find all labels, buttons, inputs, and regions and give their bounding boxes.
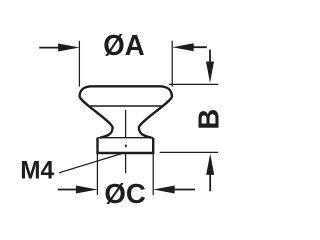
extension line right (diameter C) xyxy=(152,154,154,196)
svg-text:M4: M4 xyxy=(20,156,54,184)
svg-text:ØA: ØA xyxy=(103,30,144,62)
extension line right (diameter A) xyxy=(171,41,173,87)
arrow C left tail xyxy=(58,189,78,191)
arrowhead A right xyxy=(172,43,194,51)
arrow A left tail xyxy=(39,47,62,49)
arrowhead A left xyxy=(58,44,80,52)
head bottom line xyxy=(90,105,162,107)
arrowhead B up xyxy=(206,153,214,175)
B top extension line xyxy=(169,83,218,85)
arrowhead C right xyxy=(153,186,175,194)
knob neck left outline xyxy=(80,97,113,138)
B bottom extension line xyxy=(160,151,218,153)
centerline upper segment xyxy=(125,110,127,137)
extension line left (diameter A) xyxy=(78,41,80,87)
knob head outline xyxy=(80,86,172,96)
B down arrow tail xyxy=(209,50,211,64)
M4 leader line xyxy=(59,153,125,173)
base top line xyxy=(98,137,154,139)
knob base rectangle xyxy=(98,138,154,153)
arrow C right tail xyxy=(172,189,195,191)
arrowhead C left xyxy=(76,186,98,194)
B up arrow tail xyxy=(209,174,211,191)
centerline dot xyxy=(125,145,127,148)
arrowhead B down xyxy=(206,62,214,84)
svg-text:ØC: ØC xyxy=(104,178,146,209)
knob neck right outline xyxy=(139,97,172,138)
centerline lower segment xyxy=(125,153,127,174)
svg-text:B: B xyxy=(194,109,226,130)
extension line left (diameter C) xyxy=(96,154,98,196)
arrow A right tail xyxy=(190,46,207,48)
